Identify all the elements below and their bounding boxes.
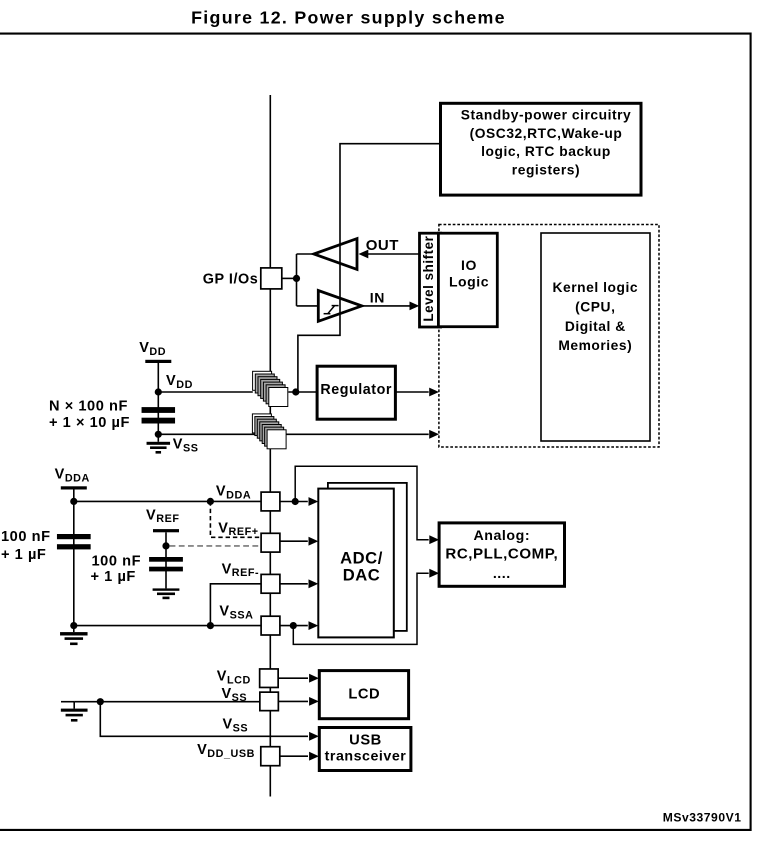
wire dashed VDDA to VREF+ bbox=[207, 498, 214, 505]
wire VSS to pin stack bbox=[158, 433, 428, 435]
svg-text:+ 1 µF: + 1 µF bbox=[91, 569, 136, 585]
svg-text:logic, RTC backup: logic, RTC backup bbox=[481, 144, 611, 159]
arrow VREF+ into ADC bbox=[309, 537, 319, 546]
node VSSA internal bbox=[290, 622, 297, 629]
pin VSSA bbox=[261, 616, 280, 635]
block IO Logic bbox=[438, 233, 497, 327]
pin VREF+ bbox=[261, 533, 280, 552]
wire OUT from level shifter bbox=[366, 253, 420, 255]
wire VDD down bbox=[157, 363, 159, 442]
wire standby-supply from VDD node to standby box bbox=[298, 144, 440, 392]
svg-text:DAC: DAC bbox=[343, 566, 381, 585]
pin GP I/Os bbox=[261, 268, 282, 289]
wire VREF- branch bbox=[207, 622, 214, 629]
svg-text:N × 100 nF: N × 100 nF bbox=[49, 399, 128, 415]
arrow regulator output bbox=[429, 388, 439, 397]
svg-text:IN: IN bbox=[370, 290, 385, 306]
svg-text:100 nF: 100 nF bbox=[92, 553, 142, 569]
arrow VREF- into ADC bbox=[309, 579, 319, 588]
wire ground stub bbox=[73, 702, 75, 709]
arrow OUT into buffer bbox=[359, 250, 369, 259]
pin VDD_USB bbox=[261, 747, 280, 766]
svg-text:Figure 12. Power supply scheme: Figure 12. Power supply scheme bbox=[191, 8, 506, 28]
block Standby-power circuitry bbox=[441, 103, 642, 195]
supply bar VDD bbox=[145, 360, 171, 363]
wire VSS to LCD pin bbox=[74, 701, 259, 703]
dashed boundary digital power domain bbox=[439, 225, 659, 448]
svg-text:MSv33790V1: MSv33790V1 bbox=[663, 810, 742, 824]
capacitor VDD decoupling N x 100nF + 1 x 10uF bbox=[142, 407, 176, 413]
svg-text:+ 1 × 10 µF: + 1 × 10 µF bbox=[49, 415, 130, 431]
arrow VSS into domain bbox=[429, 430, 439, 439]
buffer output driver bbox=[314, 239, 357, 270]
svg-text:Analog:: Analog: bbox=[473, 528, 530, 544]
wire VLCD pin to LCD bbox=[278, 677, 308, 679]
wire to output buffer bbox=[297, 253, 314, 255]
svg-text:....: .... bbox=[493, 566, 511, 582]
wire IN to level shifter bbox=[362, 305, 410, 307]
wire ground overhang bbox=[61, 701, 74, 703]
arrow VSSA into ADC bbox=[309, 621, 319, 630]
arrow VSS into LCD bbox=[309, 697, 319, 706]
svg-text:LCD: LCD bbox=[348, 686, 380, 702]
wire VDD stack to regulator bbox=[288, 391, 317, 393]
wire to input trigger bbox=[297, 305, 319, 307]
svg-text:Kernel logic: Kernel logic bbox=[553, 280, 639, 295]
wire VDDA rail to Analog block bbox=[295, 466, 429, 540]
node VSS bbox=[155, 431, 162, 438]
ground VSSA bbox=[60, 632, 88, 635]
wire VREF- pin to ADC bbox=[280, 583, 308, 585]
pin VLCD bbox=[260, 669, 279, 688]
svg-text:(OSC32,RTC,Wake-up: (OSC32,RTC,Wake-up bbox=[470, 126, 623, 141]
arrow VDD_USB into USB bbox=[309, 752, 319, 761]
svg-text:Level shifter: Level shifter bbox=[421, 235, 436, 321]
wire GP I/O pin to buffers bbox=[282, 277, 297, 279]
svg-text:Digital &: Digital & bbox=[565, 319, 626, 334]
ground VSS external bottom bbox=[61, 709, 88, 712]
svg-text:RC,PLL,COMP,: RC,PLL,COMP, bbox=[445, 545, 558, 562]
wire VDDA down bbox=[73, 490, 75, 633]
wire VSSA to pin bbox=[74, 625, 261, 627]
wire VSS branch to USB bbox=[100, 702, 308, 737]
block USB transceiver bbox=[319, 728, 411, 771]
block Regulator bbox=[317, 366, 395, 419]
wire VDD to pin stack bbox=[158, 391, 253, 393]
svg-text:Standby-power circuitry: Standby-power circuitry bbox=[461, 107, 632, 122]
wire VSSA pin to ADC bbox=[280, 625, 308, 627]
ground VREF bbox=[153, 588, 180, 590]
block Kernel logic bbox=[541, 233, 650, 441]
block LCD bbox=[319, 671, 408, 719]
wire VDD_USB pin to USB bbox=[280, 755, 308, 757]
wire VSSA rail to Analog block bbox=[293, 573, 428, 644]
block ADC/DAC front bbox=[318, 489, 394, 638]
node VDD internal bbox=[292, 388, 299, 395]
buffer input schmitt trigger bbox=[318, 291, 362, 322]
node VDDA internal bbox=[292, 498, 299, 505]
svg-text:(CPU,: (CPU, bbox=[575, 300, 615, 315]
svg-text:OUT: OUT bbox=[366, 237, 399, 254]
pin VSS (LCD) bbox=[260, 692, 279, 711]
wire VREF down bbox=[165, 532, 167, 588]
pin VDDA bbox=[261, 492, 280, 511]
svg-text:Logic: Logic bbox=[449, 274, 489, 290]
node VDD bbox=[155, 388, 162, 395]
block Analog RC PLL COMP bbox=[439, 523, 564, 586]
schmitt hysteresis symbol bbox=[324, 313, 331, 315]
wire buffer branch vertical bbox=[296, 254, 298, 306]
block ADC/DAC rear bbox=[328, 483, 407, 631]
svg-text:Regulator: Regulator bbox=[320, 382, 392, 398]
svg-text:IO: IO bbox=[461, 257, 477, 273]
svg-text:USB: USB bbox=[349, 733, 382, 749]
svg-text:transceiver: transceiver bbox=[325, 749, 407, 765]
node VSSA bbox=[70, 622, 77, 629]
supply bar VREF bbox=[153, 529, 179, 532]
pin VREF- bbox=[261, 574, 280, 593]
block Level shifter bbox=[420, 233, 441, 327]
ground VSS bbox=[147, 442, 171, 445]
wire chip pin rail bbox=[269, 95, 271, 797]
supply bar VDDA bbox=[61, 486, 87, 489]
arrow VDDA into Analog bbox=[429, 535, 439, 544]
arrow VSSA into Analog bbox=[429, 569, 439, 578]
svg-text:+ 1 µF: + 1 µF bbox=[1, 547, 46, 563]
arrow VDDA into ADC bbox=[309, 497, 319, 506]
svg-text:100 nF: 100 nF bbox=[1, 529, 51, 545]
wire dashed VREF to VREF+ pin bbox=[170, 545, 262, 547]
wire VSS pin to LCD bbox=[278, 700, 308, 702]
pins VSS multiple (stack) bbox=[252, 414, 271, 433]
node VDDA bbox=[70, 498, 77, 505]
svg-text:GP I/Os: GP I/Os bbox=[203, 271, 259, 287]
wire regulator to kernel domain bbox=[395, 391, 428, 393]
arrow IN into level shifter bbox=[410, 302, 420, 311]
capacitor VDDA 100nF + 1uF bbox=[57, 534, 91, 539]
node GP I/O junction bbox=[293, 275, 300, 282]
node VSS bottom bbox=[97, 698, 104, 705]
pins VDD multiple (stack) bbox=[253, 371, 272, 390]
arrow VSS into USB transceiver bbox=[309, 732, 319, 741]
wire VDDA pin to ADC bbox=[280, 501, 308, 503]
wire VREF+ pin to ADC bbox=[280, 540, 308, 542]
node VREF bbox=[162, 542, 169, 549]
wire VDDA to pin bbox=[74, 500, 261, 502]
capacitor VREF 100nF + 1uF bbox=[149, 557, 183, 562]
svg-text:Memories): Memories) bbox=[558, 338, 632, 353]
arrow VLCD into LCD bbox=[309, 674, 319, 683]
svg-text:registers): registers) bbox=[512, 163, 580, 178]
